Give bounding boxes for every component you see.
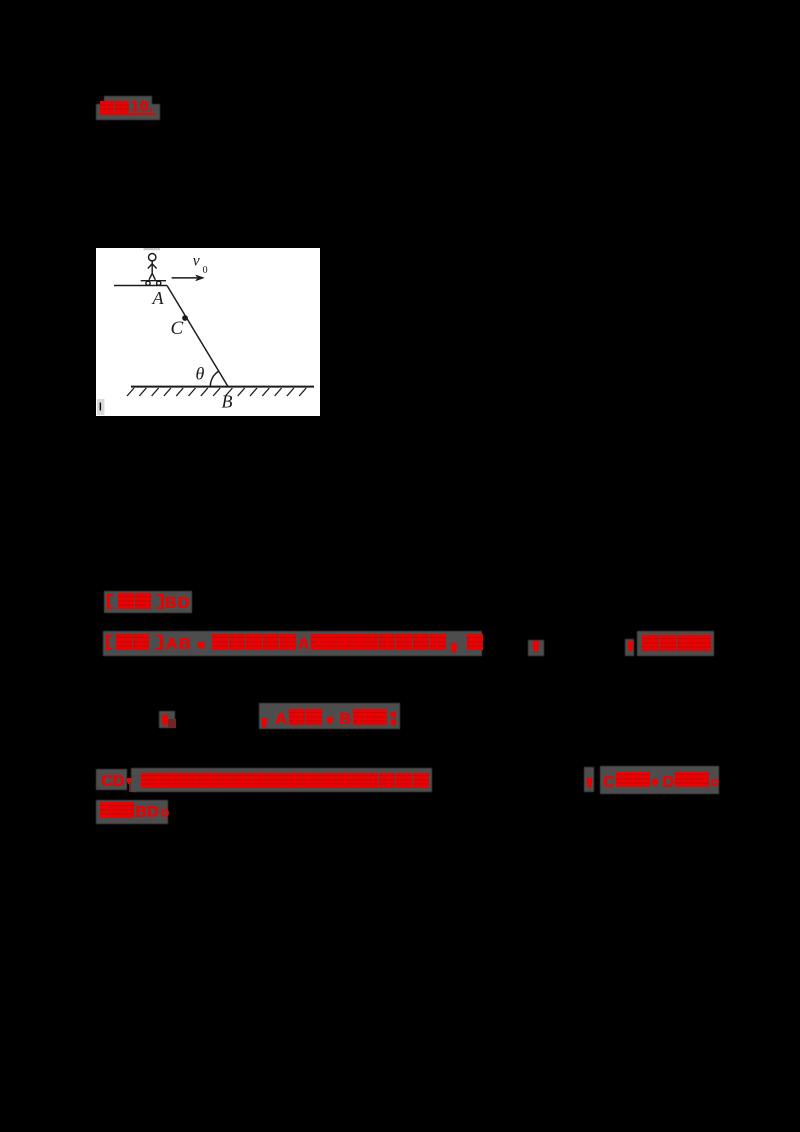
故选BD。 highlight — [96, 800, 168, 824]
line3 leading comma — [159, 711, 175, 728]
line3 highlight — [259, 703, 400, 729]
skateboard deck — [141, 280, 166, 282]
svg-text:0: 0 — [203, 265, 208, 276]
svg-text:B: B — [222, 392, 233, 412]
联立解得 highlight — [637, 631, 714, 656]
C错误、D正确。 — [602, 771, 721, 788]
comma after second formula — [625, 639, 634, 656]
CD body 17 chars — [141, 772, 430, 789]
title highlight main — [96, 104, 160, 120]
comma after first formula — [528, 640, 544, 656]
cursor mark bottom-left — [97, 399, 105, 415]
C错误、D正确。 highlight — [600, 766, 719, 794]
dark red artifact — [129, 783, 137, 792]
point C dot — [182, 315, 188, 321]
arms — [148, 264, 152, 269]
analysis text 【解析】AB、运动员离开A点后做平抛运动，有 — [106, 633, 483, 650]
stick figure head — [149, 254, 156, 261]
v0 arrow — [172, 277, 197, 279]
answer text 【答案】BD — [107, 593, 192, 609]
answer line highlight — [104, 591, 192, 613]
diagram white box — [96, 248, 320, 416]
platform line — [114, 285, 167, 287]
，A正确、B错误； — [259, 708, 401, 725]
CD body highlight — [131, 768, 432, 792]
slope A to B — [167, 286, 228, 387]
title text 变式10. — [100, 100, 155, 115]
ground hatching — [127, 388, 306, 396]
title highlight top step — [104, 96, 152, 105]
body — [151, 261, 153, 273]
legs — [149, 273, 152, 280]
angle arc — [210, 371, 218, 386]
联立解得 — [642, 634, 711, 651]
svg-text:C: C — [171, 318, 184, 339]
CD、 highlight — [96, 769, 127, 790]
comma before C错误 — [584, 767, 594, 792]
svg-text:A: A — [152, 288, 165, 308]
故选BD。 — [100, 801, 171, 818]
top gray smudge — [144, 248, 161, 250]
ground line — [131, 386, 314, 388]
svg-text:θ: θ — [196, 363, 205, 383]
CD、 — [100, 771, 136, 787]
analysis line highlight — [103, 631, 482, 656]
wheels — [146, 281, 150, 285]
svg-text:v: v — [193, 252, 200, 269]
